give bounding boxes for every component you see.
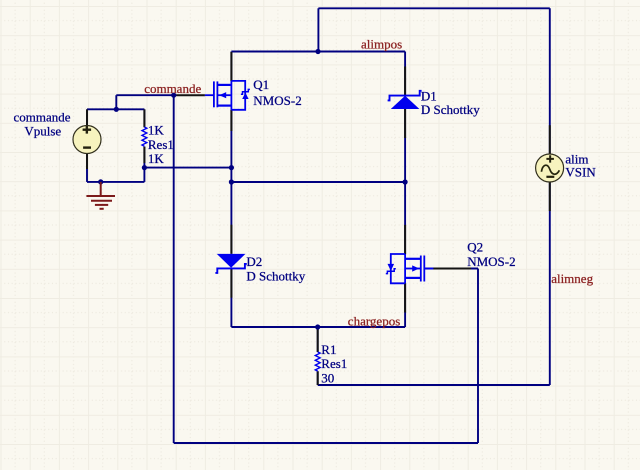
pin Q2 drain bbox=[404, 225, 406, 254]
svg-text:D Schottky: D Schottky bbox=[246, 268, 305, 283]
wire commande drop bbox=[173, 95, 175, 443]
diode D2 D Schottky bbox=[215, 254, 246, 273]
wire bbox=[86, 154, 88, 182]
wire bbox=[230, 269, 232, 328]
wire bbox=[317, 327, 319, 352]
node chargepos junction bbox=[315, 324, 320, 329]
svg-text:Vpulse: Vpulse bbox=[24, 124, 61, 139]
wire bbox=[477, 269, 479, 444]
resistor R1 30 bbox=[315, 352, 320, 371]
pin Vpulse plus bbox=[86, 109, 88, 125]
pin Q2 gate bbox=[433, 268, 471, 270]
svg-text:R1: R1 bbox=[321, 342, 336, 357]
node mid left junction bbox=[229, 179, 234, 184]
wire bbox=[549, 182, 551, 385]
wire bbox=[143, 109, 145, 127]
wire bbox=[87, 108, 144, 110]
node commande junction bbox=[171, 93, 176, 98]
svg-text:D Schottky: D Schottky bbox=[421, 102, 480, 117]
svg-text:VSIN: VSIN bbox=[565, 165, 596, 180]
pin D1 cathode bbox=[404, 67, 406, 96]
wire bbox=[87, 181, 144, 183]
source Vpulse bbox=[73, 126, 101, 154]
pin Q1 gate bbox=[177, 94, 205, 96]
svg-text:NMOS-2: NMOS-2 bbox=[467, 254, 515, 269]
source VSIN bbox=[536, 154, 564, 182]
wire commande bbox=[116, 94, 176, 96]
svg-text:Q2: Q2 bbox=[467, 240, 483, 255]
svg-text:commande: commande bbox=[13, 110, 70, 125]
pin D2 anode bbox=[230, 225, 232, 254]
wire middle bbox=[231, 181, 405, 183]
pin VSIN minus bbox=[549, 182, 551, 211]
svg-text:alimpos: alimpos bbox=[361, 36, 402, 51]
wire bbox=[317, 8, 319, 51]
svg-text:NMOS-2: NMOS-2 bbox=[253, 93, 301, 108]
node gnd rail junction bbox=[229, 165, 234, 170]
wire Q2 gate bbox=[424, 268, 478, 270]
pin Q1 source bbox=[230, 110, 232, 131]
svg-text:30: 30 bbox=[321, 370, 334, 385]
ground bbox=[86, 182, 115, 209]
pin Res1 top bbox=[143, 109, 145, 127]
diode D1 D Schottky bbox=[388, 91, 422, 109]
node ground tap junction bbox=[98, 179, 103, 184]
transistor Q2 NMOS-2 bbox=[386, 254, 434, 283]
pin Q1 drain bbox=[230, 52, 232, 81]
wire bbox=[143, 168, 145, 182]
wire bbox=[230, 110, 232, 254]
pin D2 cathode bbox=[230, 269, 232, 298]
svg-text:1K: 1K bbox=[148, 151, 165, 166]
wire bbox=[143, 147, 145, 168]
node alimpos junction bbox=[315, 49, 320, 54]
svg-text:Q1: Q1 bbox=[253, 77, 269, 92]
wire bbox=[144, 167, 231, 169]
wire bbox=[318, 7, 549, 9]
svg-text:1K: 1K bbox=[148, 123, 165, 138]
pin VSIN plus bbox=[549, 125, 551, 154]
wire bbox=[317, 371, 319, 385]
wire bbox=[115, 95, 117, 109]
transistor Q1 NMOS-2 bbox=[205, 81, 250, 110]
pin Q2 source bbox=[404, 283, 406, 312]
wire bbox=[404, 283, 406, 327]
pin Vpulse minus bbox=[86, 153, 88, 169]
pin R1 top bbox=[317, 327, 319, 352]
wire bbox=[86, 109, 88, 125]
resistor Res1 1K bbox=[142, 127, 147, 146]
svg-text:alimneg: alimneg bbox=[551, 271, 593, 286]
svg-text:chargepos: chargepos bbox=[348, 314, 400, 329]
pin Res1 bottom bbox=[143, 147, 145, 163]
svg-text:commande: commande bbox=[144, 81, 201, 96]
svg-text:Res1: Res1 bbox=[148, 137, 174, 152]
node res1 bottom junction bbox=[142, 165, 147, 170]
wire bbox=[404, 52, 406, 96]
wire bbox=[404, 109, 406, 254]
wire bbox=[549, 8, 551, 154]
wire bbox=[230, 52, 232, 82]
node vpulse top junction bbox=[114, 107, 119, 112]
wire alimpos bbox=[231, 51, 405, 53]
pin R1 bottom bbox=[317, 371, 319, 385]
wire bbox=[318, 384, 550, 386]
node mid right junction bbox=[403, 179, 408, 184]
svg-text:Res1: Res1 bbox=[321, 356, 347, 371]
wire chargepos bbox=[231, 326, 405, 328]
svg-text:D2: D2 bbox=[246, 254, 262, 269]
pin D1 anode bbox=[404, 109, 406, 138]
wire bottom bbox=[174, 442, 478, 444]
